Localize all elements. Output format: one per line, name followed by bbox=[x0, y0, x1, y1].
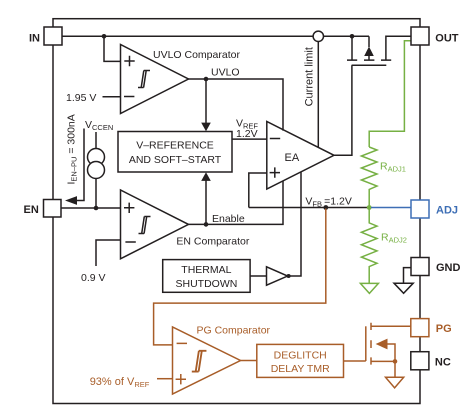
svg-text:DEGLITCH: DEGLITCH bbox=[274, 349, 327, 361]
svg-text:EN Comparator: EN Comparator bbox=[176, 235, 249, 247]
svg-text:Current limit: Current limit bbox=[304, 47, 316, 106]
svg-text:AND SOFT–START: AND SOFT–START bbox=[129, 154, 222, 166]
svg-text:PG Comparator: PG Comparator bbox=[197, 325, 271, 337]
svg-text:UVLO Comparator: UVLO Comparator bbox=[153, 49, 240, 61]
svg-text:ADJ: ADJ bbox=[436, 204, 458, 216]
svg-text:NC: NC bbox=[435, 356, 451, 368]
svg-text:1.95 V: 1.95 V bbox=[66, 92, 96, 104]
svg-text:V–REFERENCE: V–REFERENCE bbox=[136, 140, 214, 152]
svg-text:PG: PG bbox=[436, 323, 452, 335]
svg-text:EN: EN bbox=[24, 204, 39, 216]
svg-text:RADJ1: RADJ1 bbox=[380, 161, 406, 174]
svg-text:SHUTDOWN: SHUTDOWN bbox=[175, 278, 237, 290]
svg-text:0.9 V: 0.9 V bbox=[81, 272, 106, 284]
svg-text:Enable: Enable bbox=[212, 213, 245, 225]
svg-text:GND: GND bbox=[436, 262, 461, 274]
svg-text:OUT: OUT bbox=[435, 32, 459, 44]
svg-text:DELAY TMR: DELAY TMR bbox=[271, 363, 330, 375]
svg-text:93% of VREF: 93% of VREF bbox=[90, 376, 150, 389]
svg-text:VFB =1.2V: VFB =1.2V bbox=[305, 195, 351, 208]
svg-text:THERMAL: THERMAL bbox=[181, 264, 231, 276]
svg-text:1.2V: 1.2V bbox=[236, 128, 258, 140]
svg-text:IN: IN bbox=[29, 32, 40, 44]
svg-text:UVLO: UVLO bbox=[211, 67, 240, 79]
svg-text:EA: EA bbox=[285, 152, 300, 164]
svg-text:RADJ2: RADJ2 bbox=[381, 232, 407, 245]
svg-text:IEN–PU = 300nA: IEN–PU = 300nA bbox=[66, 114, 79, 184]
svg-text:VCCEN: VCCEN bbox=[85, 119, 113, 132]
